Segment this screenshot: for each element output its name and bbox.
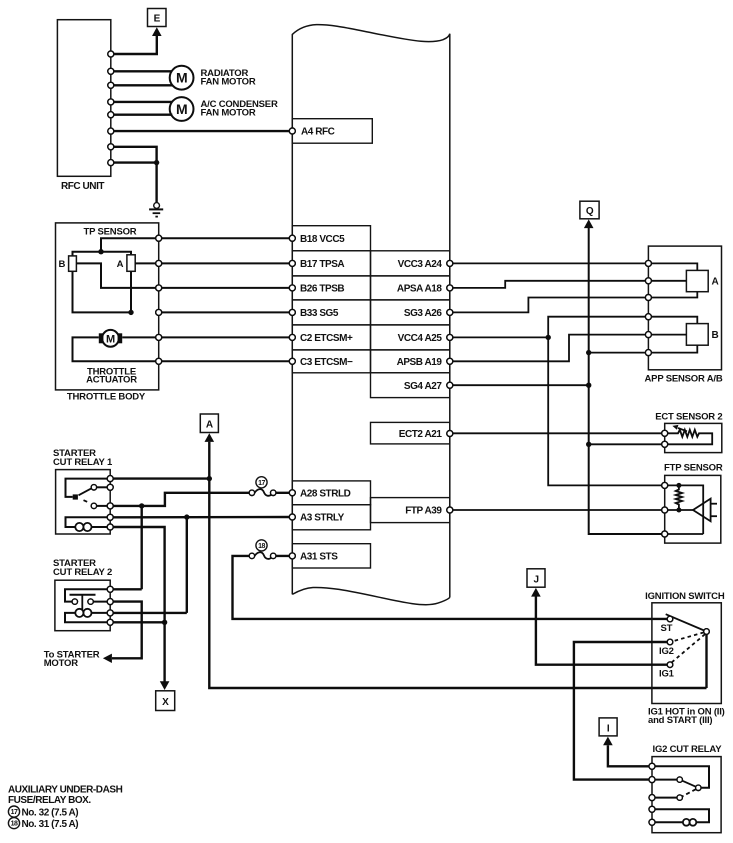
wire APSA A18 to APP xyxy=(450,281,649,288)
wire B17 TPSA xyxy=(159,262,293,264)
svg-text:B33 SG5: B33 SG5 xyxy=(300,308,339,319)
wire A3 STRLY to relay1 pin4 xyxy=(110,516,292,519)
RFC pins xyxy=(108,51,114,57)
connector I box xyxy=(599,718,617,736)
Q line (sensor ground bus) xyxy=(589,228,665,534)
pin box B33 SG5 xyxy=(289,300,370,325)
radiator fan motor M1 xyxy=(170,66,194,90)
throttle actuator motor xyxy=(99,330,122,347)
STS wire to ST contact xyxy=(233,556,668,619)
wire VCC4 branch down to FTP xyxy=(548,337,665,485)
wire SG4 A27 to Q line xyxy=(450,384,589,386)
pin box FTP A39 xyxy=(371,498,453,523)
wire IG2 relay pin1 to I xyxy=(608,745,652,766)
wire RFC pin7 to ground junction xyxy=(111,147,157,163)
svg-text:RFC UNIT: RFC UNIT xyxy=(61,181,104,192)
bottom text xyxy=(8,785,123,830)
svg-text:A31 STS: A31 STS xyxy=(300,552,338,563)
throttle body xyxy=(56,223,293,403)
ECT SENSOR 2 box xyxy=(665,423,722,452)
wire relay2 pin1 up (to STRLD junction) xyxy=(110,588,142,590)
wire IG2 down to IG2 cut relay xyxy=(574,642,667,780)
pin box APSA A18 xyxy=(371,276,453,300)
wire down to ground xyxy=(155,163,157,203)
wire FTP A39 to FTP sensor xyxy=(450,509,665,511)
connector J box xyxy=(527,569,545,587)
IG2 relay pins xyxy=(649,763,655,769)
svg-text:A: A xyxy=(712,277,719,288)
svg-text:ST: ST xyxy=(661,623,673,634)
svg-text:IG2 CUT RELAY: IG2 CUT RELAY xyxy=(653,744,723,755)
fuse 18 xyxy=(255,552,273,559)
wire A wiper to TPSA xyxy=(135,262,159,264)
APP SENSOR A/B box xyxy=(648,246,721,370)
svg-text:C3 ETCSM−: C3 ETCSM− xyxy=(300,357,353,368)
relay2 pins xyxy=(107,586,113,592)
svg-text:CUT RELAY 1: CUT RELAY 1 xyxy=(53,457,113,468)
pin box A4 RFC xyxy=(289,119,372,144)
svg-text:CUT RELAY 2: CUT RELAY 2 xyxy=(53,567,112,578)
wire motor- loop to ETCSM- xyxy=(73,337,159,361)
svg-text:18: 18 xyxy=(11,821,18,828)
relay1 pins xyxy=(107,476,113,482)
arm xyxy=(682,781,696,787)
svg-text:J: J xyxy=(533,574,538,585)
pin box C2 ETCSM+ xyxy=(289,325,370,350)
A/C condenser fan motor M2 xyxy=(170,97,194,121)
junction VCC4 branch xyxy=(546,335,551,340)
svg-text:APSA A18: APSA A18 xyxy=(397,284,442,295)
ECT2 thermistor xyxy=(665,425,713,444)
svg-text:IGNITION SWITCH: IGNITION SWITCH xyxy=(645,591,725,602)
relay2 coil xyxy=(92,612,111,614)
relay1 dashed throw xyxy=(84,500,89,502)
svg-text:A4 RFC: A4 RFC xyxy=(301,127,335,138)
wire VCC3 A24 to APP xyxy=(450,262,649,264)
junction X line xyxy=(162,620,167,625)
pivot contact xyxy=(696,785,701,790)
junction SG5 xyxy=(128,310,133,315)
IG2 contact xyxy=(667,639,673,645)
svg-text:VCC4 A25: VCC4 A25 xyxy=(398,333,443,344)
wire RFC pin3 to M1 xyxy=(111,84,173,86)
svg-text:FTP SENSOR: FTP SENSOR xyxy=(664,463,723,474)
junction xyxy=(154,160,159,165)
fuse 17 xyxy=(255,489,273,496)
wire relay2 pin2 to starter motor xyxy=(110,602,142,659)
pin box SG3 A26 xyxy=(371,300,453,325)
wire B bottom to SG5 xyxy=(73,271,132,312)
TP sensor pins on box edge xyxy=(156,235,162,241)
pin box C3 ETCSM- xyxy=(289,350,370,373)
switch arm ST to pivot xyxy=(666,614,707,631)
pivot feed from bottom rail xyxy=(705,634,707,688)
svg-text:ECT SENSOR 2: ECT SENSOR 2 xyxy=(655,412,722,423)
svg-text:M: M xyxy=(176,101,187,117)
arrow to starter motor xyxy=(103,654,112,663)
pin box VCC4 A25 xyxy=(371,325,453,350)
wire fuse to relay1 pin3 (step) xyxy=(110,493,249,506)
APP element B xyxy=(648,317,718,353)
dashed pivot to IG2 xyxy=(673,632,704,641)
svg-text:IG2: IG2 xyxy=(659,646,674,657)
dashed throw to lower contact xyxy=(682,789,696,796)
svg-text:FTP A39: FTP A39 xyxy=(405,506,442,517)
ECM/PCM block xyxy=(289,25,453,605)
svg-text:No. 31 (7.5 A): No. 31 (7.5 A) xyxy=(22,819,79,830)
svg-text:18: 18 xyxy=(258,543,265,550)
svg-text:17: 17 xyxy=(258,480,265,487)
relay2 internal: feed to NC contact xyxy=(65,589,110,601)
relay1 coil xyxy=(66,517,111,527)
junction SG4 xyxy=(586,383,591,388)
amplifier triangle xyxy=(693,499,711,522)
connector Q box xyxy=(580,201,599,219)
svg-text:B: B xyxy=(59,259,66,270)
FTP internals xyxy=(665,483,717,534)
arrow down into X xyxy=(160,681,170,690)
svg-text:FAN MOTOR: FAN MOTOR xyxy=(201,108,256,119)
wire RFC pin8 to ground xyxy=(111,161,157,163)
VCC5 tap inside TP sensor xyxy=(101,238,159,252)
circled 18 legend xyxy=(8,818,19,829)
svg-text:SG4 A27: SG4 A27 xyxy=(404,381,443,392)
relay2 NC contact bar xyxy=(70,594,96,596)
FTP pins xyxy=(662,482,668,488)
svg-text:APP SENSOR A/B: APP SENSOR A/B xyxy=(645,374,723,385)
pin box A3 STRLY xyxy=(289,505,370,530)
svg-text:A: A xyxy=(117,259,124,270)
svg-text:A3 STRLY: A3 STRLY xyxy=(300,513,345,524)
wire B wiper to TPSB (step) xyxy=(76,263,158,288)
wire IG1 to J xyxy=(536,597,667,665)
internal resistor xyxy=(676,485,682,510)
relay1 common contact square xyxy=(73,494,78,499)
APP element A xyxy=(648,263,718,297)
wire VCC4 A25 to APP xyxy=(450,317,649,338)
svg-text:ACTUATOR: ACTUATOR xyxy=(86,374,137,385)
relay1 switch arm xyxy=(79,488,92,495)
sensing element stubs xyxy=(711,503,717,505)
svg-text:and START (III): and START (III) xyxy=(648,715,712,726)
relay coil xyxy=(652,809,709,822)
wire C2 ETCSM+ xyxy=(159,336,293,338)
pin box B17 TPSA xyxy=(289,251,370,276)
signal rail xyxy=(665,509,693,511)
svg-text:B: B xyxy=(712,330,719,341)
wire A bottom joins SG5 xyxy=(130,271,132,312)
IGNITION SWITCH box xyxy=(652,603,721,704)
connector X box xyxy=(156,691,175,711)
branch Q line to APP SG4 xyxy=(589,352,649,354)
wire ECT2 A21 to ECT sensor xyxy=(450,432,665,434)
wire RFC pin5 to M2 xyxy=(111,113,173,115)
svg-text:VCC3 A24: VCC3 A24 xyxy=(398,259,443,270)
relay1 internal: contact feed xyxy=(66,479,111,497)
svg-text:B18 VCC5: B18 VCC5 xyxy=(300,234,345,245)
wire B26 TPSB xyxy=(159,287,293,289)
ground symbol xyxy=(149,203,163,217)
ECT pins xyxy=(662,430,668,436)
svg-text:C2 ETCSM+: C2 ETCSM+ xyxy=(300,333,353,344)
svg-text:APSB A19: APSB A19 xyxy=(397,357,443,368)
wire relay2 pin4 to X line xyxy=(110,621,164,623)
junction VCC5 xyxy=(98,249,103,254)
wire A28 STRLD to relay1 pin3 xyxy=(273,492,292,494)
svg-text:M: M xyxy=(106,333,115,345)
resistor B (TP sensor element B) xyxy=(69,256,77,271)
APP pins xyxy=(645,260,651,266)
svg-text:No. 32 (7.5 A): No. 32 (7.5 A) xyxy=(22,807,79,818)
circled 17 xyxy=(256,477,267,488)
pin box ECT2 A21 xyxy=(371,422,453,444)
wire B18 VCC5 xyxy=(159,237,293,239)
svg-text:MOTOR: MOTOR xyxy=(44,658,79,669)
wire A31 STS via fuse 18 down to ignition ST xyxy=(273,555,292,557)
svg-text:AUXILIARY UNDER-DASH: AUXILIARY UNDER-DASH xyxy=(8,785,123,796)
wire RFC pin2 to M1 xyxy=(111,70,172,72)
ECM outline (torn top and bottom edges) xyxy=(292,25,450,598)
right sensors xyxy=(450,201,723,543)
pin box B26 TPSB xyxy=(289,276,370,300)
svg-text:17: 17 xyxy=(11,809,18,816)
svg-text:A: A xyxy=(206,420,213,431)
supply rail xyxy=(665,485,704,534)
junction xyxy=(586,350,591,355)
arrow up into I xyxy=(603,737,613,746)
A line down and bottom rail to ignition switch xyxy=(209,442,706,688)
svg-text:M: M xyxy=(176,70,187,86)
Q line arrow up xyxy=(584,219,594,228)
pin box APSB A19 xyxy=(371,350,453,373)
svg-text:IG1: IG1 xyxy=(659,669,675,680)
connector pin circles overlay xyxy=(72,51,709,825)
wire down to relay2 pin1 xyxy=(140,506,142,589)
wire motor+ to ETCSM+ xyxy=(122,336,159,338)
ground rail xyxy=(665,533,704,535)
svg-text:B26 TPSB: B26 TPSB xyxy=(300,284,344,295)
RFC section xyxy=(57,9,289,217)
svg-text:TP SENSOR: TP SENSOR xyxy=(84,227,137,238)
svg-text:B17 TPSA: B17 TPSA xyxy=(300,259,344,270)
circled 17 legend xyxy=(8,806,19,817)
svg-text:ECT2 A21: ECT2 A21 xyxy=(399,429,443,440)
relay2 contacts xyxy=(72,599,77,604)
wire RFC pin1 to E with up arrow xyxy=(111,36,157,54)
wire relay2 pin3 to STRLY junction xyxy=(110,612,187,614)
pivot xyxy=(704,629,710,635)
relay1 lower contact xyxy=(91,503,96,508)
relays bottom left xyxy=(44,414,707,711)
junction ECT return xyxy=(586,442,591,447)
pin box VCC3 A24 xyxy=(371,251,453,276)
arrow up into J xyxy=(531,588,541,597)
wire APSB A19 to APP xyxy=(450,335,649,362)
FTP SENSOR box xyxy=(665,475,721,543)
circled 18 xyxy=(256,540,267,551)
svg-text:FAN MOTOR: FAN MOTOR xyxy=(201,77,256,88)
connector E box xyxy=(148,9,167,27)
svg-text:X: X xyxy=(162,697,169,708)
THROTTLE BODY box xyxy=(56,223,159,390)
wire RFC pin6 to A4 RFC xyxy=(111,130,290,132)
wire SG3 A26 to APP xyxy=(450,298,649,313)
pin box A31 STS xyxy=(289,544,370,568)
relay1 upper contact xyxy=(91,485,96,490)
wire C3 ETCSM- xyxy=(159,360,293,362)
ignition xyxy=(527,569,725,833)
resistor A (TP sensor element A) xyxy=(127,255,135,271)
wire relay1 pin5 to X line xyxy=(110,527,164,683)
svg-text:E: E xyxy=(154,13,161,24)
relay internal: feed pin1 to pivot xyxy=(652,766,709,788)
ECM bottom torn edge xyxy=(292,587,450,604)
svg-text:Q: Q xyxy=(586,206,594,217)
svg-text:SG3 A26: SG3 A26 xyxy=(404,308,443,319)
svg-text:FUSE/RELAY BOX.: FUSE/RELAY BOX. xyxy=(8,795,91,806)
junction STRLD to relay2 xyxy=(139,503,144,508)
upper contact xyxy=(677,777,682,782)
junction STRLY to relay2 xyxy=(184,514,189,519)
wire RFC pin4 to M2 xyxy=(111,101,172,103)
top rail joining B and A resistor tops xyxy=(73,252,132,256)
svg-text:THROTTLE BODY: THROTTLE BODY xyxy=(67,391,146,402)
svg-text:A28 STRLD: A28 STRLD xyxy=(300,488,351,499)
wire ECT sensor return to Q line xyxy=(589,443,665,445)
RFC UNIT box xyxy=(57,20,110,177)
pin box B18 VCC5 xyxy=(289,226,370,251)
IG1 contact xyxy=(667,662,673,668)
arrow up into A xyxy=(205,433,215,442)
IG2 CUT RELAY box xyxy=(652,757,721,833)
wire relay1 pin1 to A line xyxy=(110,477,209,479)
pin box SG4 A27 xyxy=(371,373,453,398)
connector A box xyxy=(200,414,218,433)
wire down to relay2 pin3 xyxy=(186,517,188,613)
wire B33 SG5 xyxy=(159,311,293,313)
dashed pivot to IG1 xyxy=(672,634,706,662)
lower contact xyxy=(677,795,682,800)
junction on A line xyxy=(207,476,212,481)
pin box A28 STRLD xyxy=(289,481,370,505)
ST contact xyxy=(667,616,673,622)
